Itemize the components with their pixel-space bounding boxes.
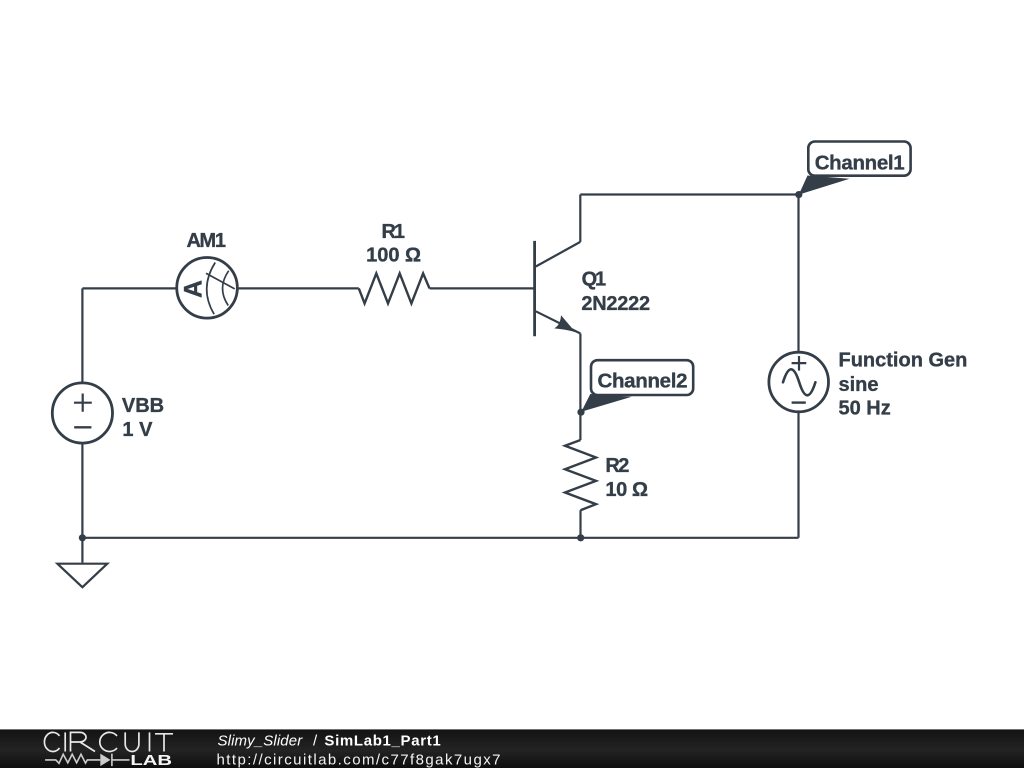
transistor Q1 — [535, 241, 581, 336]
wire — [579, 195, 581, 242]
svg-text:Channel1: Channel1 — [815, 151, 905, 174]
ground — [57, 538, 107, 587]
svg-text:http://circuitlab.com/c77f8gak: http://circuitlab.com/c77f8gak7ugx7 — [217, 751, 501, 768]
wire — [579, 510, 581, 538]
probe flag Channel1 — [799, 142, 911, 195]
resistor R1 — [359, 273, 430, 303]
svg-text:10 Ω: 10 Ω — [605, 479, 648, 501]
wire — [797, 195, 799, 538]
node junction at flag Channel2 — [577, 409, 584, 416]
wire — [82, 537, 798, 539]
svg-text:Slimy_Slider: Slimy_Slider — [218, 732, 304, 749]
svg-text:A: A — [179, 280, 207, 298]
function generator V1 — [769, 352, 829, 412]
svg-text:100 Ω: 100 Ω — [366, 245, 421, 267]
svg-text:AM1: AM1 — [186, 230, 226, 252]
svg-text:Channel2: Channel2 — [598, 370, 688, 393]
node junction R2 bottom — [577, 534, 584, 541]
svg-text:LAB: LAB — [130, 752, 172, 768]
CircuitLab logo CIRCUIT — [44, 732, 173, 751]
ammeter AM1 — [177, 258, 238, 319]
svg-text:VBB: VBB — [122, 395, 164, 417]
wire — [81, 288, 83, 537]
svg-text:R2: R2 — [605, 455, 629, 477]
wire — [82, 287, 358, 289]
node junction at flag Channel1 — [795, 191, 802, 198]
svg-text:50 Hz: 50 Hz — [839, 397, 891, 419]
wire — [580, 193, 798, 195]
svg-text:sine: sine — [839, 374, 879, 396]
wire — [579, 334, 581, 441]
CircuitLab logo squiggle and diode — [45, 754, 129, 767]
node junction ground — [79, 534, 86, 541]
svg-text:R1: R1 — [381, 221, 405, 243]
svg-text:Function Gen: Function Gen — [839, 350, 968, 372]
resistor R2 — [565, 440, 596, 510]
wire — [430, 287, 535, 289]
svg-text:1 V: 1 V — [122, 419, 153, 441]
svg-text:SimLab1_Part1: SimLab1_Part1 — [324, 732, 440, 749]
svg-text:2N2222: 2N2222 — [581, 293, 650, 315]
probe flag Channel2 — [581, 360, 693, 412]
voltage source VBB — [52, 383, 112, 443]
svg-text:Q1: Q1 — [582, 269, 607, 291]
